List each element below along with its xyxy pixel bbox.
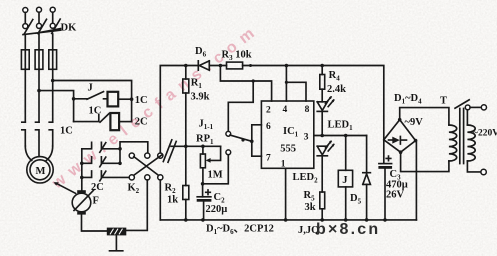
resistor R3	[227, 62, 243, 69]
svg-text:555: 555	[280, 143, 296, 154]
wire	[25, 12, 52, 23]
svg-text:~9V: ~9V	[405, 117, 424, 128]
wire F to earth block	[82, 215, 107, 231]
watermark www.elecfans.com	[48, 21, 263, 193]
node J contact left	[72, 97, 76, 101]
wire to contactor coils top	[53, 81, 132, 122]
wire pin 3 output	[314, 135, 367, 137]
coil 1C	[108, 92, 119, 107]
wire motor leads	[25, 146, 52, 161]
relay coil J	[345, 136, 347, 171]
svg-text:3k: 3k	[305, 202, 316, 213]
wire to J contact	[39, 91, 74, 122]
switch DK tie bar	[23, 29, 61, 35]
wire top rail left segment	[160, 66, 198, 153]
bottom rail	[160, 219, 416, 221]
svg-text:3: 3	[304, 132, 309, 142]
contact 2C row1	[82, 142, 120, 152]
wire left rail of 2C block	[81, 149, 83, 190]
svg-text:F: F	[93, 196, 99, 207]
svg-text:J: J	[342, 175, 347, 186]
contact 2C row3	[82, 171, 129, 181]
contact 2C row2	[82, 157, 120, 167]
svg-text:220µ: 220µ	[206, 204, 228, 215]
wire phase2 down	[38, 69, 40, 122]
resistor R2	[185, 146, 187, 185]
ground	[110, 235, 123, 250]
wire K2 mid-bottom to earth block	[126, 180, 147, 230]
svg-text:8: 8	[305, 105, 310, 115]
coupling arrow to sensor F	[56, 183, 76, 193]
svg-text:1k: 1k	[167, 195, 178, 206]
motor M	[27, 157, 53, 183]
wire	[25, 34, 52, 50]
svg-text:M: M	[36, 166, 46, 177]
wire 2C block right riser to K2	[120, 142, 148, 164]
node pins 4-8	[285, 64, 289, 68]
switch K2 crossing blades	[134, 155, 163, 176]
node phase2 tap	[37, 89, 41, 93]
svg-text:26V: 26V	[386, 190, 405, 201]
earth block (hatched)	[107, 228, 127, 236]
wire pins 4 and 8 to rail	[286, 66, 306, 102]
fuse FU1	[21, 50, 29, 70]
switch K2 contacts	[129, 153, 134, 158]
main contacts 1C on three phases	[22, 122, 53, 156]
wire primary bottom to terminal	[467, 161, 481, 172]
wire pins 6-7 bracket	[252, 125, 262, 156]
potentiometer RP1	[202, 146, 204, 154]
svg-text:T: T	[440, 96, 447, 107]
svg-text:J: J	[88, 83, 93, 94]
transformer primary winding	[467, 125, 475, 161]
terminal 220V bottom	[481, 169, 486, 174]
svg-text:1C: 1C	[135, 95, 148, 106]
diode D5	[366, 136, 368, 174]
fuse FU2	[35, 50, 43, 70]
svg-text:7: 7	[266, 154, 271, 164]
LED1	[317, 102, 327, 111]
diode D6	[198, 61, 209, 70]
svg-text:3.9k: 3.9k	[191, 92, 210, 103]
wire primary top to switch	[466, 110, 468, 125]
svg-text:2C: 2C	[91, 182, 104, 193]
wire pin2 net	[220, 66, 271, 102]
wire pin 1 to bottom rail	[285, 168, 287, 220]
coil 2C	[110, 113, 119, 130]
switch DK lower circles	[23, 24, 28, 29]
svg-text:~220V: ~220V	[473, 129, 497, 139]
wire J1-1 lower to C2 node	[203, 155, 229, 184]
wire K2 right-bottom to bottom rail	[159, 180, 161, 220]
wire D6 to R3	[209, 65, 226, 67]
fuse FU3	[49, 50, 57, 70]
svg-text:2.4k: 2.4k	[327, 84, 346, 95]
node R1 top	[184, 64, 188, 68]
resistor R5	[320, 192, 325, 209]
contact J1-1	[226, 131, 231, 136]
node R4 top	[320, 64, 324, 68]
svg-text:R3 10k: R3 10k	[222, 50, 252, 63]
svg-text:b×8.cn: b×8.cn	[316, 221, 380, 238]
sensor F	[72, 193, 91, 212]
capacitor C3	[379, 163, 392, 165]
svg-text:1M: 1M	[208, 170, 223, 181]
wire top rail right of R3	[249, 64, 252, 67]
switch DK blades	[24, 19, 60, 34]
transformer secondary winding	[449, 125, 457, 161]
svg-text:D1~D4: D1~D4	[394, 93, 422, 106]
node pin2 branch	[219, 64, 223, 68]
wire phase3 down	[52, 69, 54, 122]
wire bridge AC top to transformer	[400, 108, 449, 125]
svg-text:1C: 1C	[89, 106, 102, 117]
switch K2 right blades	[163, 140, 176, 163]
svg-text:D1~D6、2CP12: D1~D6、2CP12	[206, 224, 274, 237]
capacitor C2	[201, 182, 205, 186]
svg-text:1C: 1C	[60, 126, 73, 137]
svg-text:6: 6	[266, 122, 271, 132]
svg-text:4: 4	[283, 105, 288, 115]
svg-text:DK: DK	[61, 23, 78, 34]
wire bridge AC bottom to transformer	[401, 152, 449, 171]
transformer T core	[460, 109, 464, 164]
svg-text:2: 2	[266, 106, 271, 116]
svg-text:2C: 2C	[135, 117, 148, 128]
switch on 220V line	[465, 105, 470, 110]
resistor R1	[185, 66, 187, 80]
LED2	[317, 146, 327, 155]
wire phase1 down	[24, 69, 26, 122]
node phase3 tap	[51, 79, 55, 83]
wire bridge minus to bottom rail	[415, 141, 418, 220]
bridge rectifier D1-D4	[384, 120, 416, 153]
contact 1C auxiliary	[74, 114, 109, 123]
node y146 rail	[171, 145, 221, 147]
IC U1 555	[261, 101, 313, 168]
contact J (relay)	[74, 92, 108, 100]
wire J1-1 feed jog	[228, 81, 253, 131]
resistor R4	[321, 66, 323, 75]
terminal circles L1 L2 L3	[23, 8, 28, 13]
